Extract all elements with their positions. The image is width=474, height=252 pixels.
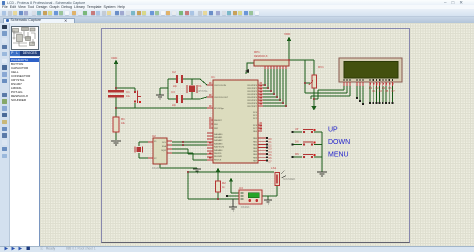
svg-text:RA5/AN4: RA5/AN4: [214, 149, 223, 152]
svg-text:RD4/PSP4: RD4/PSP4: [247, 97, 258, 99]
svg-text:22p: 22p: [172, 104, 177, 107]
svg-text:RD5/PSP5: RD5/PSP5: [247, 100, 258, 102]
svg-text:RP1: RP1: [254, 50, 260, 54]
svg-text:RE1/WR: RE1/WR: [214, 156, 222, 158]
svg-text:RB0/INT: RB0/INT: [214, 120, 222, 122]
svg-text:RD0/PSP0: RD0/PSP0: [247, 85, 258, 87]
svg-text:MCLR/Vpp: MCLR/Vpp: [214, 108, 225, 110]
svg-text:RA1/AN1: RA1/AN1: [214, 136, 223, 139]
svg-text:DS1307: DS1307: [152, 167, 161, 170]
svg-text:R2: R2: [222, 181, 226, 185]
svg-text:RA0/AN0: RA0/AN0: [214, 133, 223, 136]
svg-text:OSC2/CLKOUT: OSC2/CLKOUT: [214, 97, 229, 99]
svg-text:DN: DN: [295, 141, 299, 144]
svg-text:U1: U1: [211, 75, 215, 79]
svg-text:RA2/AN2: RA2/AN2: [214, 139, 223, 142]
svg-text:MN: MN: [295, 153, 299, 156]
svg-text:C3: C3: [171, 90, 175, 94]
svg-text:SOUNDER: SOUNDER: [283, 178, 295, 181]
svg-text:D7: D7: [392, 90, 396, 93]
svg-text:RD6/PSP6: RD6/PSP6: [247, 103, 258, 105]
svg-text:1k: 1k: [222, 186, 225, 189]
svg-text:RE2/CS: RE2/CS: [214, 159, 222, 161]
svg-text:10u: 10u: [126, 95, 131, 98]
svg-text:VDD: VDD: [284, 32, 291, 36]
svg-text:SQW: SQW: [161, 150, 166, 152]
svg-text:UP: UP: [295, 128, 299, 131]
svg-text:D5: D5: [385, 90, 389, 93]
svg-text:MENU: MENU: [328, 152, 349, 159]
svg-text:D7: D7: [269, 160, 273, 163]
svg-text:22p: 22p: [173, 85, 178, 88]
svg-text:RD1/PSP1: RD1/PSP1: [247, 88, 258, 90]
svg-text:U2: U2: [152, 134, 156, 138]
svg-text:RD3/PSP3: RD3/PSP3: [247, 94, 258, 96]
svg-text:OSC1/CLKIN: OSC1/CLKIN: [214, 85, 226, 87]
svg-text:RESPACK-8: RESPACK-8: [254, 55, 268, 58]
svg-text:RV1: RV1: [318, 65, 324, 69]
svg-text:D3: D3: [379, 90, 383, 93]
svg-text:CRYSTAL: CRYSTAL: [197, 90, 208, 93]
svg-text:RD7/PSP7: RD7/PSP7: [247, 106, 258, 108]
svg-text:DOWN: DOWN: [328, 139, 350, 146]
svg-text:U3: U3: [239, 186, 243, 190]
svg-text:C1: C1: [126, 90, 130, 94]
svg-text:RD2/PSP2: RD2/PSP2: [247, 91, 258, 93]
svg-text:RA4/T0CKI: RA4/T0CKI: [214, 146, 225, 149]
svg-text:DS1621: DS1621: [241, 206, 250, 209]
svg-text:D1: D1: [372, 90, 376, 93]
svg-text:LS1: LS1: [271, 166, 277, 170]
svg-text:RE0/RD: RE0/RD: [214, 153, 222, 155]
svg-text:RA3/AN3: RA3/AN3: [214, 142, 223, 145]
svg-text:SDA: SDA: [162, 145, 167, 148]
svg-text:X1: X1: [198, 84, 202, 88]
svg-text:10k: 10k: [121, 122, 126, 125]
svg-text:C2: C2: [172, 70, 176, 74]
svg-text:R1: R1: [121, 117, 125, 121]
svg-text:VDD: VDD: [111, 56, 118, 60]
svg-text:UP: UP: [328, 127, 338, 134]
